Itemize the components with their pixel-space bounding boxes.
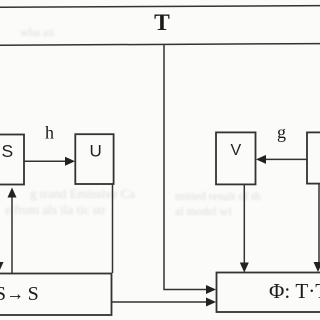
svg-text:g trand Emissive Ca: g trand Emissive Ca (30, 186, 135, 201)
box V (216, 132, 256, 184)
arrowhead into V (256, 155, 266, 164)
wire SS box to Phi box (112, 301, 209, 303)
svg-text:S: S (28, 283, 39, 305)
svg-text:mitted result of th: mitted result of th (175, 189, 261, 203)
node T top band lower line (0, 44, 320, 46)
svg-text:al model wi: al model wi (175, 204, 232, 218)
wire up-arrow from SS box to S (11, 195, 13, 273)
arrowhead down into SS box (0, 262, 4, 272)
faint bleed-through text (5, 25, 261, 218)
box S (0, 135, 24, 185)
arrowhead into U (65, 157, 75, 166)
svg-text:g: g (277, 122, 286, 142)
svg-text:wha ax: wha ax (20, 25, 54, 39)
node T top band upper line (0, 6, 320, 8)
wire right box down to Phi (318, 184, 320, 265)
wire U bottom down to SS box (112, 184, 114, 273)
arrowhead into Phi box lower left (206, 298, 216, 307)
svg-text:Φ: T·T·: Φ: T·T· (269, 279, 320, 303)
arrow g: wire right box to V (264, 158, 307, 160)
svg-text:h: h (45, 123, 54, 143)
wire V down to Phi (243, 185, 245, 266)
svg-text:→: → (6, 283, 24, 305)
wire from T band down to Phi box (164, 45, 208, 290)
svg-text:V: V (231, 142, 242, 159)
arrow h: wire S to U (24, 160, 67, 162)
arrowhead down into Phi top right (314, 262, 320, 272)
box U (75, 134, 113, 184)
arrowhead up into S (8, 188, 17, 198)
box Phi (217, 273, 320, 313)
arrowhead into Phi box upper left (206, 285, 216, 294)
svg-text:U: U (90, 142, 102, 161)
svg-text:S: S (0, 283, 6, 305)
svg-text:T: T (154, 10, 170, 36)
svg-text:e from als ila tic str: e from als ila tic str (5, 202, 106, 217)
svg-text:S: S (2, 141, 14, 161)
box W right edge (307, 132, 320, 183)
box SS (S to S) (0, 274, 112, 316)
arrowhead down into Phi (240, 263, 249, 273)
